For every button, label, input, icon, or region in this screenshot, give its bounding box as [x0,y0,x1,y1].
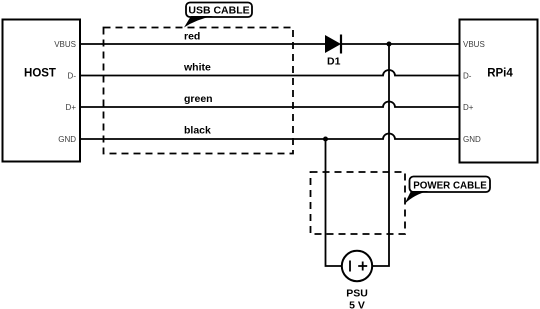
wire red (VBUS) right segment [341,43,460,45]
svg-text:D-: D- [463,72,472,81]
svg-text:GND: GND [463,135,481,144]
callout USB CABLE [184,3,252,28]
svg-text:D1: D1 [327,56,341,68]
svg-text:black: black [184,125,211,137]
wire positive supply (junction to PSU +) [372,44,389,266]
wire green (D+) with hop [80,102,460,108]
usb cable dashed boundary [104,28,294,154]
svg-text:RPi4: RPi4 [487,68,513,80]
svg-text:D+: D+ [463,103,474,112]
svg-text:VBUS: VBUS [54,40,76,49]
svg-text:USB CABLE: USB CABLE [188,5,249,17]
svg-text:5 V: 5 V [349,300,365,309]
diode D1 [325,35,341,68]
callout POWER CABLE [405,177,491,205]
node junction GND/negative [323,137,328,142]
svg-text:red: red [184,31,200,43]
plus terminal mark [358,265,367,267]
svg-text:D-: D- [68,72,77,81]
minus terminal mark [349,261,351,272]
svg-text:green: green [184,93,213,105]
wire black (GND) with hop [80,134,460,140]
PSU source symbol [342,251,372,281]
block RPi4 [460,20,538,163]
wire negative supply (GND junction to PSU -) [326,139,342,266]
wire white (D-) with hop [80,70,460,76]
svg-text:GND: GND [58,135,76,144]
power cable dashed boundary [311,172,406,234]
block HOST [3,20,81,162]
svg-text:VBUS: VBUS [463,40,485,49]
svg-text:D+: D+ [66,103,77,112]
wire red (VBUS) left segment [80,43,325,45]
svg-text:white: white [183,62,211,74]
svg-text:HOST: HOST [24,68,56,80]
svg-text:PSU: PSU [346,288,368,300]
node junction VBUS/positive [387,42,392,47]
svg-text:POWER CABLE: POWER CABLE [413,180,487,191]
